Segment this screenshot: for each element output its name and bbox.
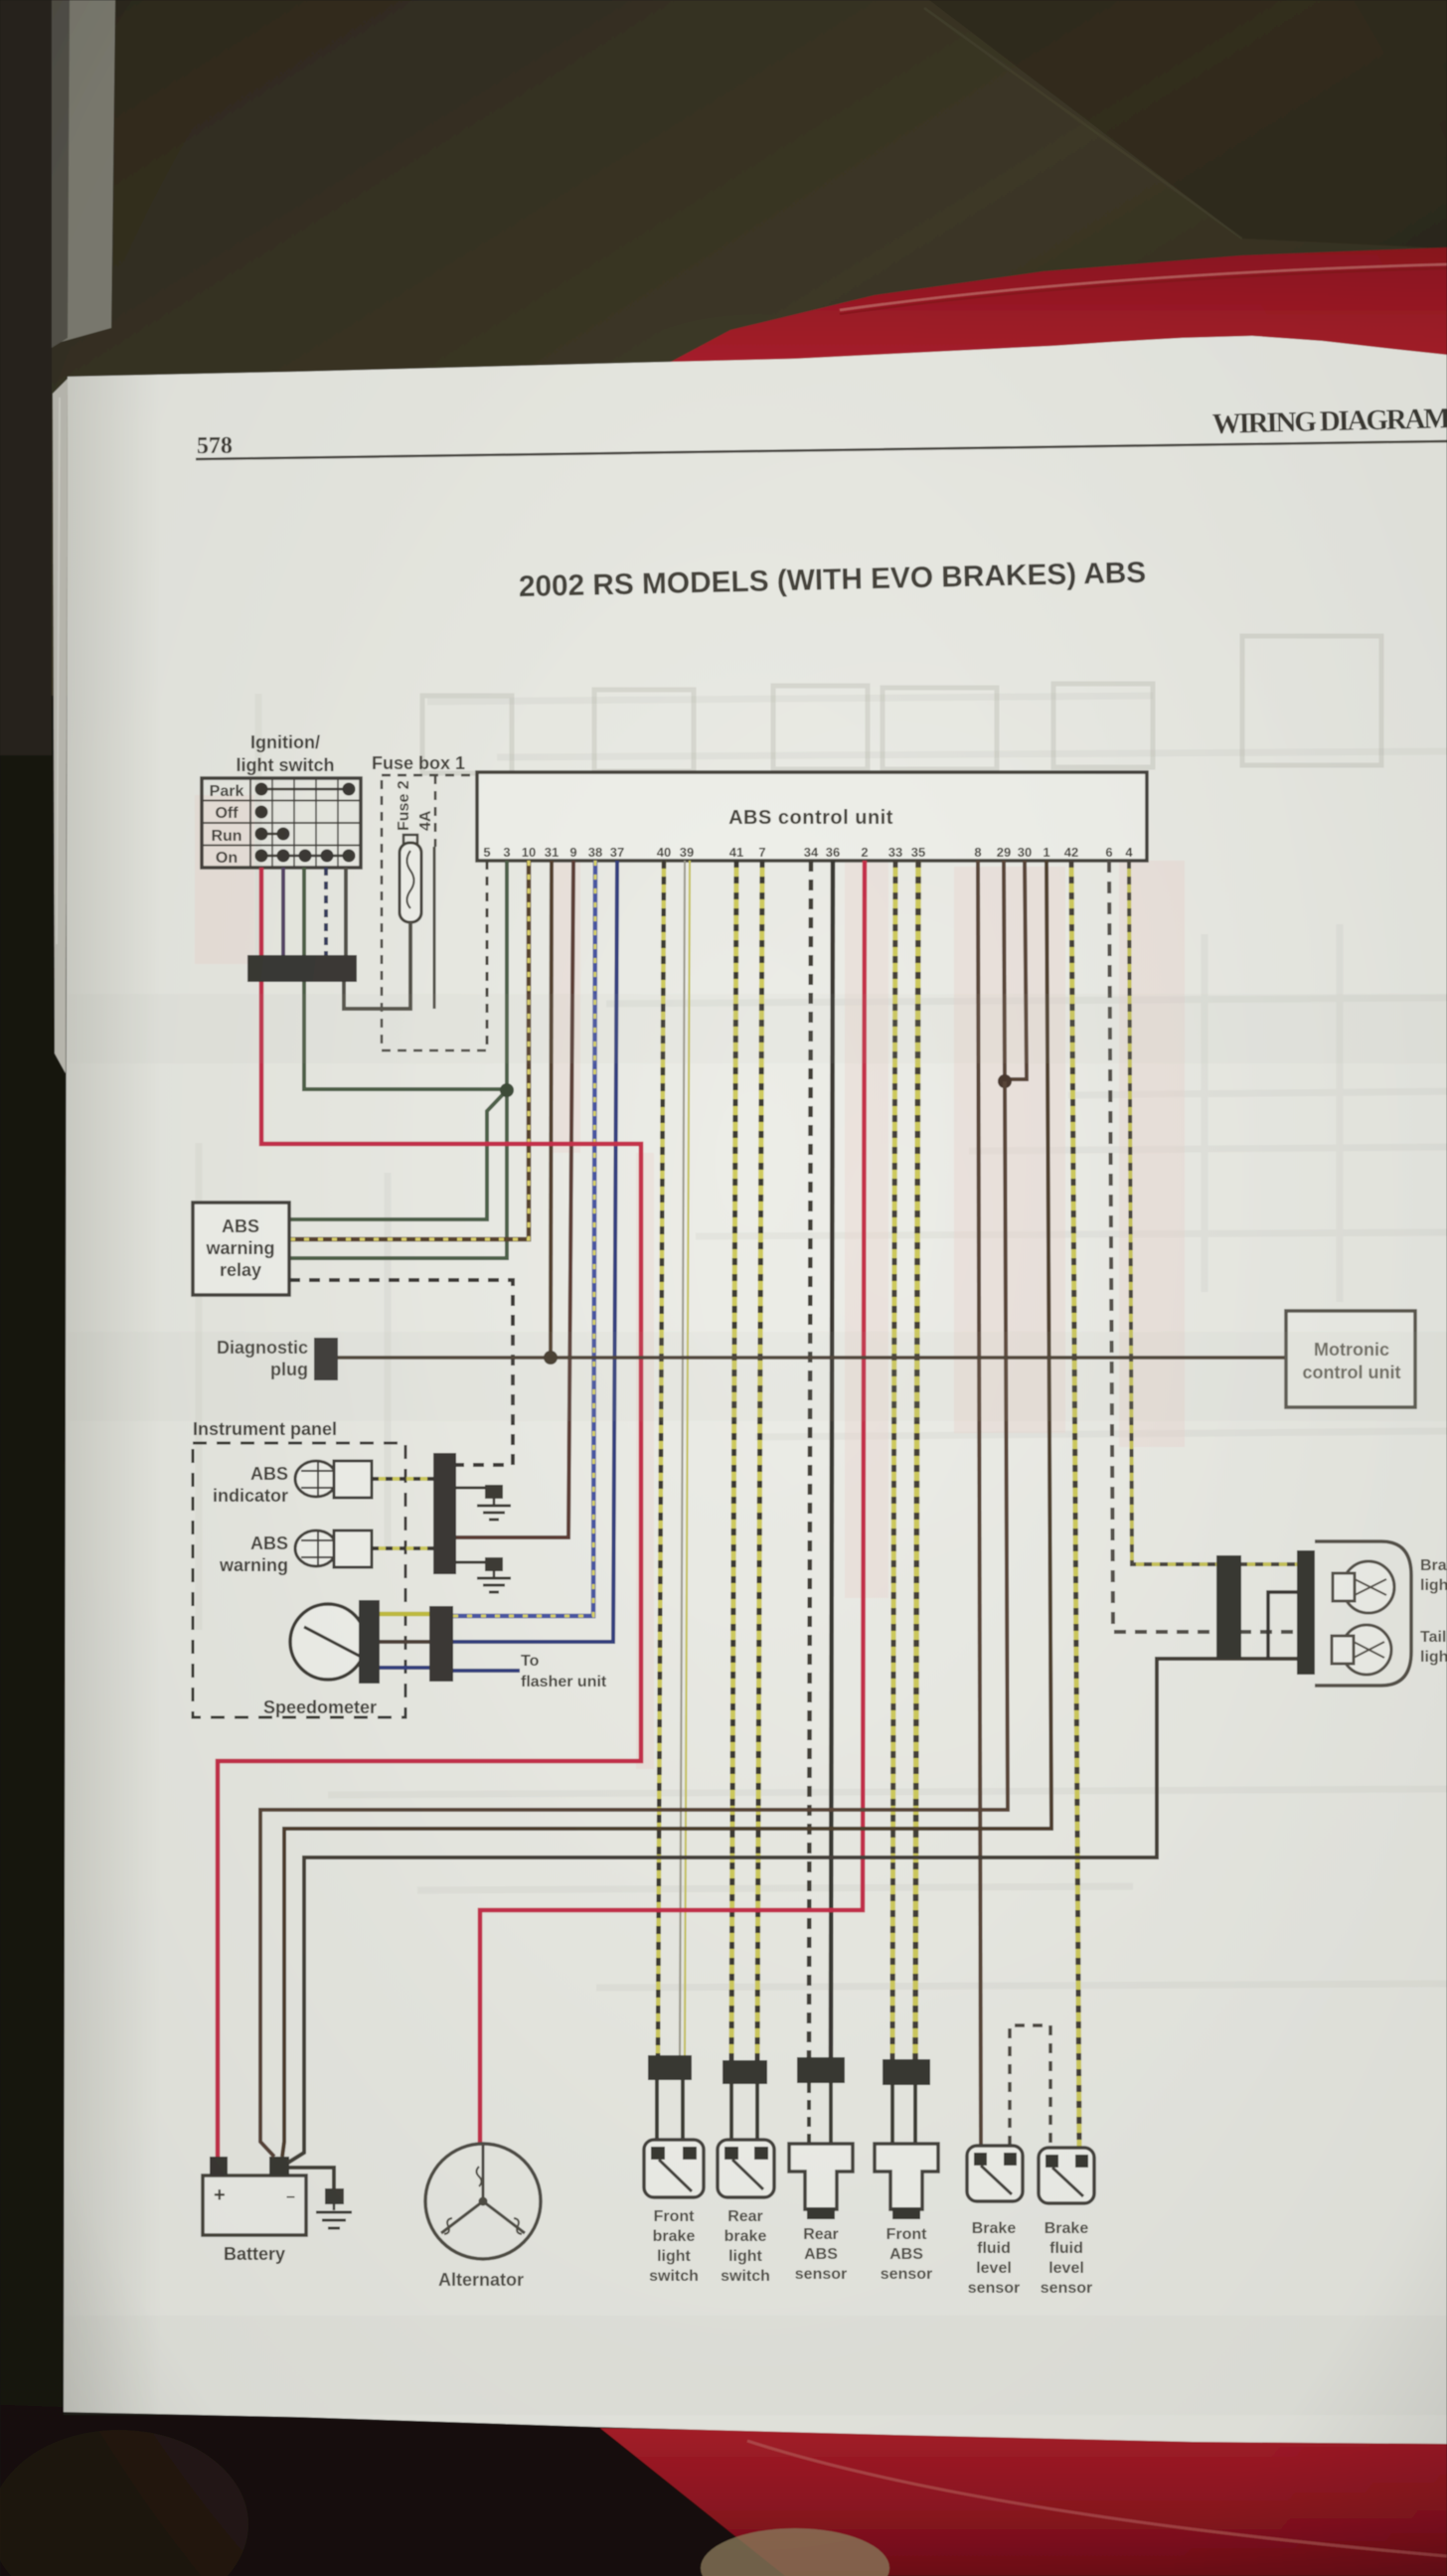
wire pin39 double thin to front brake switch: [680, 861, 685, 2055]
ABS warning relay box: [193, 1203, 289, 1295]
wire pin30 brown joining pin29: [1005, 861, 1027, 1079]
wire speedo blue: [380, 1666, 429, 1670]
wire green from ignition connector: [304, 982, 507, 1089]
wire pin31 brown to diagnostic junction: [551, 861, 552, 1357]
wire pin40 black/yellow dashed to front brake switch: [658, 861, 664, 2055]
rear ABS sensor connector: [797, 2057, 845, 2083]
speedometer: [290, 1604, 366, 1680]
brake fluid level sensor 1 body: [967, 2146, 1023, 2201]
junction node pin31/diagnostic: [544, 1351, 558, 1365]
wire pin37 blue to speedometer: [453, 861, 617, 1642]
wire red from ignition loop to battery +: [218, 982, 641, 2157]
cushion stitch seam top: [840, 264, 1447, 310]
ignition connector block: [247, 955, 357, 982]
wire pin42 yellow/black to brake fluid sensor 2: [1071, 861, 1079, 2148]
battery terminal +: [210, 2157, 228, 2175]
rear ABS sensor label: [795, 2226, 847, 2283]
front ABS sensor label: [881, 2226, 932, 2283]
dashed link between fluid sensors: [1010, 2025, 1050, 2148]
front ABS sensor body: [875, 2144, 938, 2209]
instrument panel dashed box: [193, 1443, 405, 1717]
wire pin1 brown to battery: [284, 861, 1051, 2137]
wire relay black dashed to instrument panel: [289, 1280, 513, 1465]
speedometer second connector block: [429, 1606, 453, 1682]
alternator spokes with coils: [441, 2145, 525, 2234]
front brake switch connector: [648, 2055, 692, 2080]
wire pin3 green down to junction and relay: [289, 861, 507, 1258]
red seat cushion bottom: [537, 2427, 1447, 2576]
wire pin9 maroon to ABS warning lamp: [456, 861, 573, 1537]
ground battery: [316, 2188, 352, 2228]
wire red from switch: [259, 868, 264, 957]
bottom cushion stitch seam: [747, 2441, 1447, 2556]
battery terminal -: [269, 2157, 289, 2175]
ABS control unit box: [477, 772, 1147, 861]
red seat cushion top: [656, 247, 1447, 417]
wire pin6 gray dashed to tail light: [1109, 861, 1304, 1632]
ghost pink bands (red lines showing through paper): [195, 795, 1185, 1769]
rear brake light switch label: [721, 2208, 770, 2285]
fuse box dashed outline: [382, 775, 487, 1050]
wires connector to switch: [655, 2080, 659, 2145]
wire speedo yellow: [380, 1612, 429, 1617]
faint table edge diagonal in dark area: [924, 8, 1242, 239]
paper photo shading bands: [64, 994, 1447, 2415]
switch position labels: [210, 783, 244, 867]
wire to flasher unit: [453, 1669, 520, 1673]
Motronic control unit box: [1286, 1311, 1415, 1407]
front brake switch body: [644, 2140, 704, 2197]
wire warning to connector (yellow/black): [372, 1546, 433, 1550]
battery ground wire: [289, 2168, 334, 2188]
front ABS sensor connector: [883, 2059, 930, 2085]
lamp inner link wire: [1268, 1592, 1304, 1659]
alternator circle: [425, 2144, 541, 2259]
fuse 2 symbol: [403, 835, 417, 845]
wire speedo brown: [380, 1640, 429, 1644]
wire pins29/30 merged to battery: [260, 1081, 1008, 2137]
ignition switch table: [202, 778, 361, 868]
switch contact dots and links: [255, 783, 355, 862]
brake fluid level sensor 2 label: [1041, 2220, 1092, 2297]
pin numbers: [483, 845, 1133, 860]
ABS warning bulb: [295, 1530, 337, 1566]
stacked book pages left edge: [53, 379, 68, 1073]
lamp housing: [1315, 1541, 1411, 1686]
wire pin36 black to rear ABS sensor: [831, 861, 833, 2057]
wire pin8 brown to brake fluid sensor 1: [978, 861, 981, 2146]
rear brake switch body: [718, 2140, 774, 2197]
gray door frame strip top-left: [52, 0, 115, 343]
dust speck: [54, 538, 66, 548]
wire violet from switch: [281, 868, 285, 957]
ghost bleed-through of reverse page: [422, 636, 1381, 773]
wire green from switch: [302, 868, 306, 957]
wire indicator to connector (yellow/black): [372, 1477, 433, 1481]
junction node pins 29/30: [998, 1074, 1012, 1088]
speedometer connector block: [359, 1600, 380, 1684]
header rule: [196, 441, 1447, 459]
brake fluid level sensor 1 label: [968, 2220, 1020, 2297]
wire pin7 yellow/black to rear brake switch: [757, 861, 762, 2060]
wire pin41 yellow/black to rear brake switch: [731, 861, 736, 2060]
front brake light switch label: [649, 2208, 699, 2285]
wire from fuse to ignition connector: [344, 922, 410, 1009]
dark room background: [0, 0, 1447, 894]
tail circuit ground wire to battery: [304, 1659, 1304, 2147]
lamp connector block left: [1216, 1555, 1241, 1659]
ABS indicator bulb: [295, 1461, 337, 1497]
rear ABS sensor body: [789, 2144, 853, 2209]
dark shadow bottom-left under page: [0, 2405, 785, 2576]
battery negative funnel wires: [260, 2137, 274, 2157]
instrument connector block: [433, 1453, 456, 1574]
wire green branch via diagonal to relay: [289, 1090, 507, 1219]
wire diagnostic to Motronic: [338, 1356, 1286, 1360]
dark left wall strip: [0, 0, 52, 755]
ground instrument 1: [477, 1485, 511, 1520]
battery body: [203, 2175, 306, 2235]
wire pin35 yellow/black to front ABS sensor: [915, 861, 918, 2059]
wire pin10 brown/yellow to relay: [289, 861, 529, 1239]
wire warning ground: [456, 1561, 494, 1564]
wire pin29 brown: [1004, 861, 1005, 1081]
white page: [64, 336, 1447, 2444]
wire indicator ground: [456, 1487, 494, 1490]
ground instrument 2: [477, 1557, 511, 1592]
brake fluid level sensor 2 body: [1039, 2148, 1094, 2203]
wire pin34 black dashed to rear ABS sensor: [809, 861, 811, 2057]
rear brake switch connector: [723, 2060, 767, 2084]
wire pin33 yellow/black to front ABS sensor: [892, 861, 895, 2059]
wire gray from switch: [344, 868, 348, 957]
lamp connector block right: [1297, 1550, 1315, 1675]
wire pin38 blue/yellow to speedometer: [453, 861, 595, 1616]
wire pin5 dashed stub: [486, 861, 489, 1049]
tail light bulb: [1342, 1625, 1391, 1675]
wire pin2 red to alternator: [480, 861, 865, 2144]
junction node green: [500, 1083, 514, 1097]
diagnostic plug body: [314, 1338, 338, 1380]
wire navy dashed from switch: [324, 868, 328, 957]
wire pin4 yellow/black dashed to brake light: [1129, 861, 1304, 1564]
brake light bulb: [1343, 1561, 1394, 1613]
